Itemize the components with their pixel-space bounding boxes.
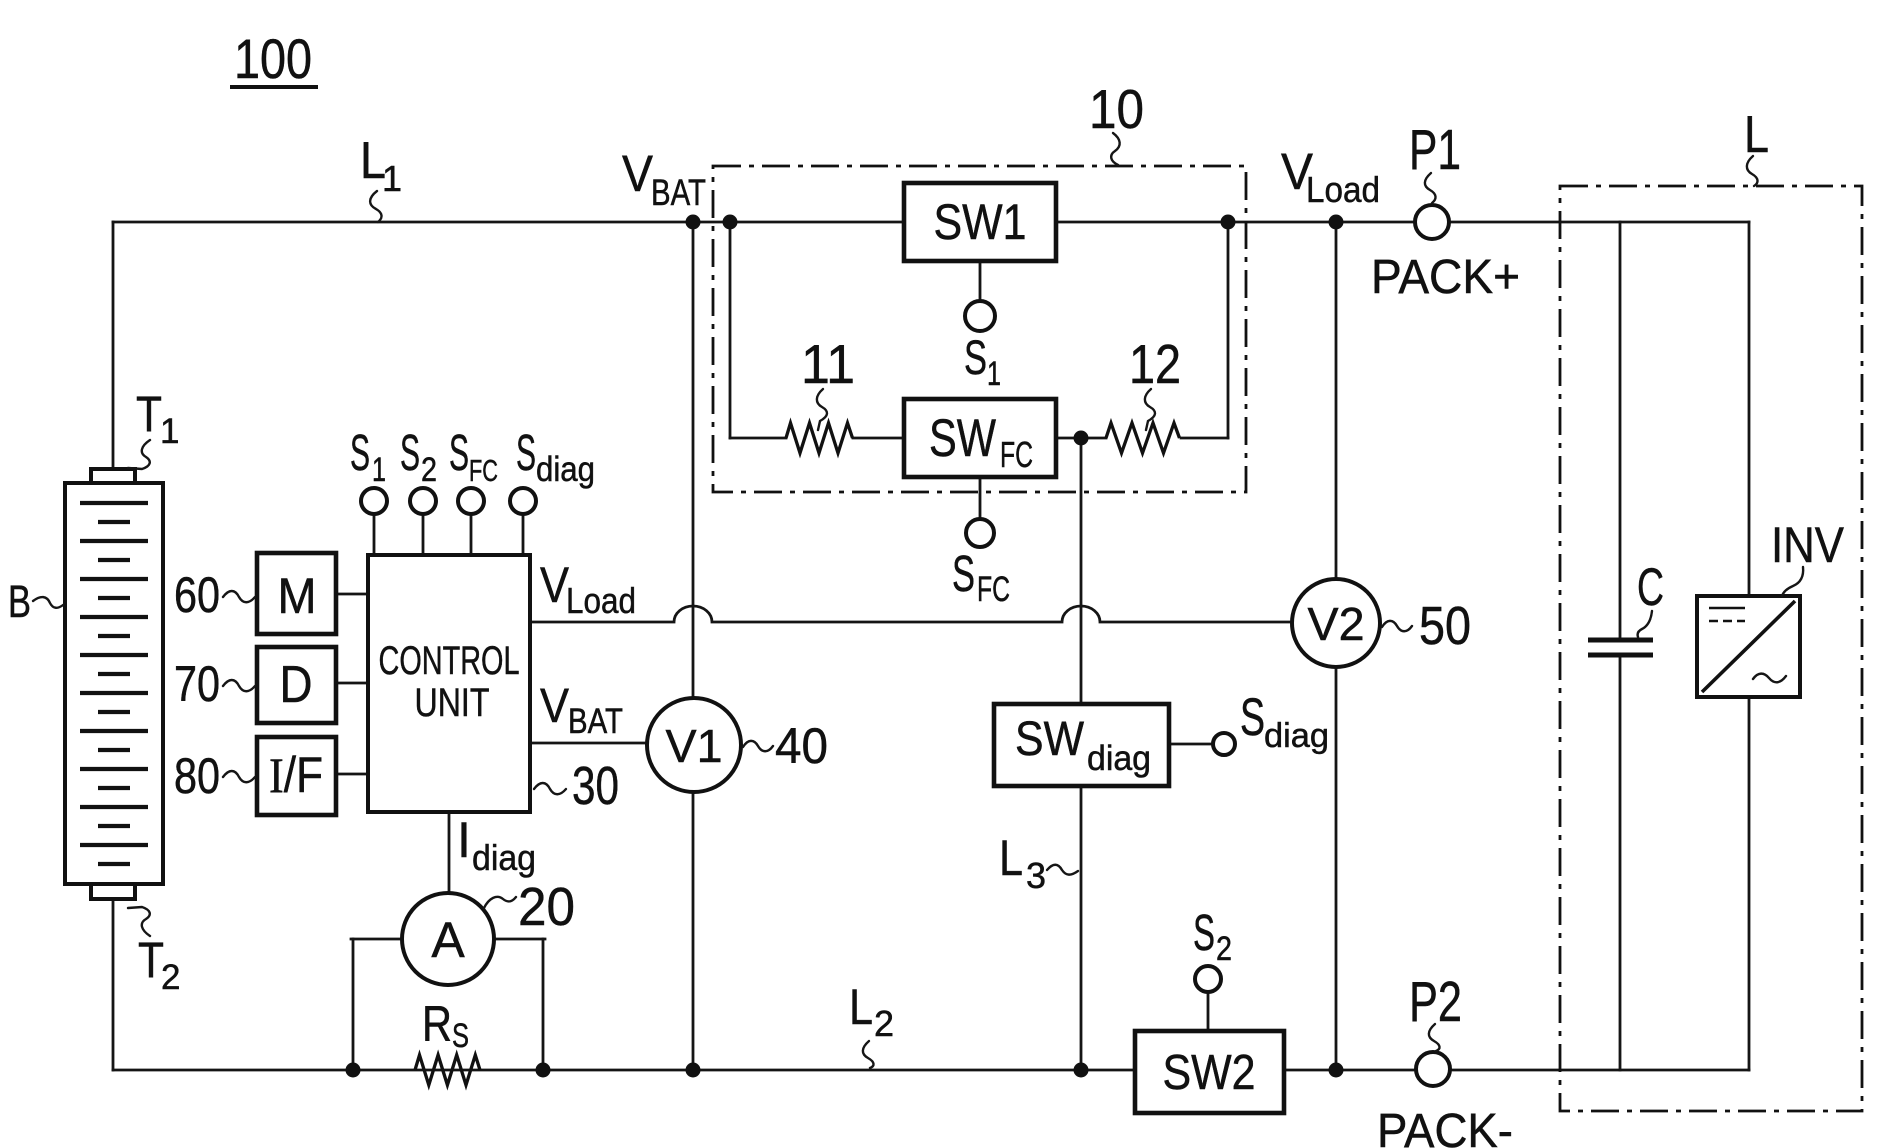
svg-text:1: 1 [372,451,386,489]
svg-text:I: I [457,812,471,868]
svg-text:20: 20 [518,877,575,937]
svg-text:L: L [1744,106,1769,164]
svg-text:S: S [449,424,469,481]
svg-text:PACK-: PACK- [1377,1105,1513,1148]
svg-text:SW: SW [929,409,996,468]
svg-text:Load: Load [566,580,636,621]
svg-text:V2: V2 [1308,598,1365,650]
svg-text:S: S [964,332,987,385]
svg-text:T: T [136,386,162,442]
svg-text:S: S [350,424,370,481]
svg-text:diag: diag [1087,739,1151,778]
svg-text:30: 30 [572,756,619,816]
svg-text:C: C [1637,558,1664,617]
svg-text:diag: diag [472,837,536,878]
svg-text:2: 2 [161,958,180,997]
svg-text:R: R [422,996,452,1052]
svg-text:BAT: BAT [651,172,706,213]
svg-text:3: 3 [1026,855,1046,896]
svg-text:S: S [516,424,536,481]
svg-text:S: S [1193,904,1215,961]
svg-text:S: S [400,424,420,481]
svg-text:2: 2 [421,451,437,489]
svg-text:S: S [452,1017,469,1055]
svg-text:SW1: SW1 [934,194,1027,250]
svg-text:SW2: SW2 [1163,1046,1256,1100]
svg-text:1: 1 [987,355,1001,393]
svg-text:S: S [952,545,975,602]
svg-text:L: L [849,979,873,1035]
svg-text:1: 1 [382,158,402,199]
svg-text:2: 2 [1216,930,1232,968]
svg-text:I/F: I/F [269,747,323,803]
svg-text:SW: SW [1015,713,1085,766]
svg-text:10: 10 [1089,78,1144,140]
svg-text:50: 50 [1419,596,1471,656]
svg-text:2: 2 [874,1003,894,1044]
svg-text:UNIT: UNIT [415,681,490,725]
svg-text:S: S [1240,688,1265,747]
svg-text:A: A [431,912,465,968]
svg-text:BAT: BAT [568,702,623,741]
svg-text:V: V [540,680,569,733]
svg-text:diag: diag [1264,717,1329,755]
svg-text:100: 100 [234,27,312,90]
svg-text:PACK+: PACK+ [1371,251,1520,304]
svg-text:12: 12 [1129,333,1181,395]
svg-text:D: D [280,656,313,714]
svg-text:P1: P1 [1409,118,1461,182]
svg-text:11: 11 [801,333,855,395]
svg-text:1: 1 [160,412,179,451]
svg-text:diag: diag [536,450,595,489]
svg-text:FC: FC [469,453,498,488]
svg-text:FC: FC [977,570,1010,609]
svg-text:Load: Load [1306,169,1380,210]
svg-text:FC: FC [1000,434,1033,475]
svg-text:B: B [8,576,31,627]
svg-text:INV: INV [1771,517,1845,573]
svg-text:V: V [622,145,653,202]
svg-text:80: 80 [174,748,220,804]
svg-text:M: M [278,568,317,624]
svg-text:V1: V1 [666,720,723,772]
svg-text:60: 60 [174,567,220,623]
svg-text:40: 40 [775,718,828,774]
svg-text:L: L [999,830,1023,886]
svg-text:70: 70 [174,656,220,712]
svg-text:CONTROL: CONTROL [379,639,520,683]
